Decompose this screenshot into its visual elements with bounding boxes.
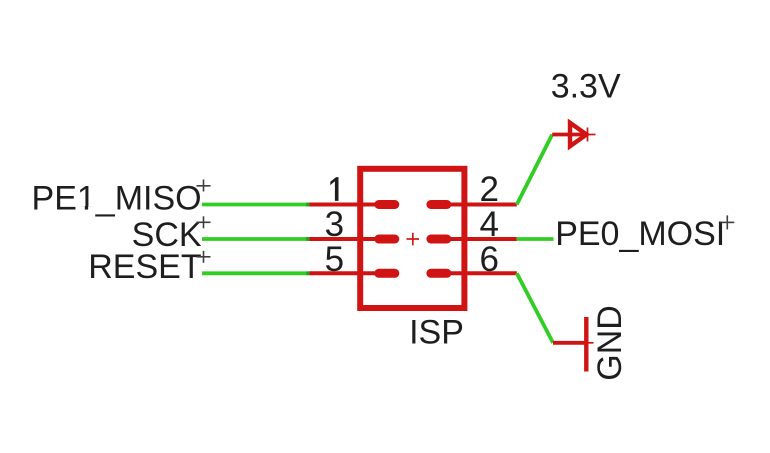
connector ISP pin 5 line bbox=[310, 271, 377, 275]
supply symbol origin cross bbox=[581, 128, 596, 142]
pin 1 contact stub bbox=[379, 200, 395, 209]
label origin cross PE1_MISO bbox=[197, 180, 211, 192]
label origin cross SCK bbox=[197, 216, 211, 228]
pin 6 contact stub bbox=[431, 269, 447, 278]
pin number 1 bbox=[330, 177, 338, 201]
connector ISP pin 1 line bbox=[310, 203, 377, 207]
connector ISP pin 2 line bbox=[450, 203, 517, 207]
pin 5 contact stub bbox=[379, 269, 395, 278]
svg-text:PE0_MOSI: PE0_MOSI bbox=[555, 215, 725, 253]
svg-text:3.3V: 3.3V bbox=[551, 68, 621, 106]
wire GND stub (red) bbox=[553, 341, 586, 345]
pin 2 contact stub bbox=[431, 200, 447, 209]
wire net PE1_MISO (green) bbox=[202, 203, 310, 207]
svg-text:5: 5 bbox=[325, 240, 344, 279]
label origin cross RESET bbox=[197, 251, 211, 263]
supply symbol 3.3V arrow bbox=[570, 123, 587, 146]
ground symbol origin cross bbox=[580, 336, 594, 350]
ground symbol GND bar bbox=[584, 317, 588, 372]
wire pin4 to PE0_MOSI (green) bbox=[517, 237, 554, 241]
connector origin cross bbox=[407, 233, 420, 246]
svg-text:GND: GND bbox=[591, 305, 629, 381]
wire net RESET (green) bbox=[202, 271, 310, 275]
wire 3.3V supply stub (red) bbox=[552, 133, 586, 137]
svg-text:2: 2 bbox=[479, 170, 498, 209]
svg-text:6: 6 bbox=[479, 240, 498, 279]
connector ISP pin 4 line bbox=[450, 237, 517, 241]
svg-text:ISP: ISP bbox=[409, 314, 464, 352]
svg-text:3: 3 bbox=[325, 205, 344, 244]
connector ISP body outline bbox=[360, 169, 464, 308]
svg-text:4: 4 bbox=[479, 205, 498, 244]
pin 3 contact stub bbox=[379, 235, 395, 244]
wire net SCK (green) bbox=[202, 237, 310, 241]
connector ISP pin 6 line bbox=[450, 271, 517, 275]
wire pin2 to 3.3V (green diagonal) bbox=[517, 135, 552, 205]
svg-text:RESET: RESET bbox=[88, 248, 201, 286]
pin 4 contact stub bbox=[431, 235, 447, 244]
svg-text:PE1_MISO: PE1_MISO bbox=[32, 180, 202, 218]
connector ISP pin 3 line bbox=[310, 237, 377, 241]
wire pin6 to GND (green diagonal) bbox=[517, 273, 553, 343]
label origin cross PE0_MOSI bbox=[720, 215, 734, 229]
